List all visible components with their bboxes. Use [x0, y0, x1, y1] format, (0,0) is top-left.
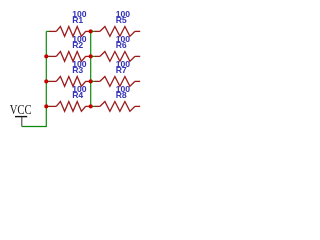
svg-text:R4: R4: [72, 90, 83, 100]
resistor R3: [49, 77, 91, 87]
power symbol VCC bar: [15, 116, 27, 118]
wire stub middle bus to R7 pin 1: [91, 80, 96, 82]
wire stub left bus to R2 pin 1: [46, 55, 49, 57]
svg-text:R5: R5: [116, 15, 127, 25]
resistor R2: [49, 52, 91, 62]
svg-text:VCC: VCC: [10, 103, 32, 118]
wire stub middle bus to R5 pin 1: [91, 30, 96, 32]
resistor R5: [95, 27, 140, 37]
junction node middle bus row 4: [89, 104, 93, 108]
svg-text:R6: R6: [116, 40, 127, 50]
junction node left bus row 3: [44, 79, 48, 83]
resistor R8: [95, 102, 140, 112]
svg-text:R7: R7: [116, 65, 127, 75]
resistor R4: [49, 102, 91, 112]
svg-text:R8: R8: [116, 90, 127, 100]
resistor R6: [95, 52, 140, 62]
junction node middle bus row 3: [89, 79, 93, 83]
wire stub left bus to R4 pin 1: [46, 105, 49, 107]
power symbol VCC pin stub: [21, 117, 23, 127]
svg-text:R2: R2: [72, 40, 83, 50]
wire stub middle bus to R8 pin 1: [91, 105, 96, 107]
wire left vertical bus: [45, 31, 47, 127]
wire stub left bus to R3 pin 1: [46, 80, 49, 82]
wire VCC feed (horizontal, bottom): [22, 126, 47, 128]
resistor R7: [95, 77, 140, 87]
svg-text:R1: R1: [72, 15, 83, 25]
junction node left bus row 4: [44, 104, 48, 108]
wire stub left bus to R1 pin 1: [46, 30, 49, 32]
wire stub middle bus to R6 pin 1: [91, 55, 96, 57]
resistor R1: [49, 27, 91, 37]
svg-text:R3: R3: [72, 65, 83, 75]
junction node middle bus row 1: [89, 29, 93, 33]
wire middle vertical bus: [90, 31, 92, 106]
junction node middle bus row 2: [89, 54, 93, 58]
junction node left bus row 2: [44, 54, 48, 58]
